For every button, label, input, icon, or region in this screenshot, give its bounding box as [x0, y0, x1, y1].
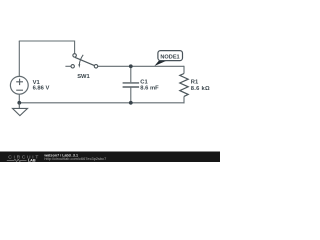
svg-text:NODE1: NODE1 [160, 54, 179, 60]
right terminal [94, 65, 98, 69]
top terminal [73, 54, 77, 58]
footer logo trace + LAB [7, 159, 27, 161]
bottom plate [123, 86, 140, 88]
left open terminal [71, 65, 74, 68]
junction node top of C1 [129, 64, 133, 68]
footer bar [0, 152, 220, 163]
svg-text:8.6 kΩ: 8.6 kΩ [191, 86, 210, 92]
capacitor C1 [123, 66, 140, 103]
wire switch to node corner [98, 65, 184, 67]
wire node corner down to R1 [183, 66, 185, 74]
wire top-left vertical (V1 top to corner) [18, 41, 20, 76]
wire V1 bottom [18, 94, 20, 103]
node label NODE1 [154, 51, 182, 66]
switch SW1 [65, 54, 97, 68]
wire down to switch [74, 41, 76, 54]
svg-text:6.86 V: 6.86 V [33, 86, 50, 92]
wire bottom rail [19, 102, 184, 104]
bottom lead [130, 88, 132, 103]
blade [75, 57, 94, 65]
svg-text:http://circuitlab.com/c667ec3p: http://circuitlab.com/c667ec3p2sbc7 [44, 156, 106, 161]
voltage source V1 [10, 76, 28, 94]
actuation arrow [79, 55, 83, 65]
junction node bottom of C1 [129, 101, 133, 105]
top plate [123, 82, 140, 84]
svg-text:8.6 mF: 8.6 mF [140, 86, 159, 92]
resistor R1 zigzag [180, 74, 188, 97]
junction node at ground/V1 [17, 101, 21, 105]
top lead [130, 66, 132, 82]
svg-text:R1: R1 [191, 79, 199, 85]
wire R1 bottom [183, 96, 185, 103]
svg-text:SW1: SW1 [77, 74, 90, 80]
ground [13, 103, 28, 116]
left open terminal stub [65, 65, 71, 67]
wire top horizontal [19, 40, 75, 42]
svg-text:LAB: LAB [28, 159, 36, 163]
